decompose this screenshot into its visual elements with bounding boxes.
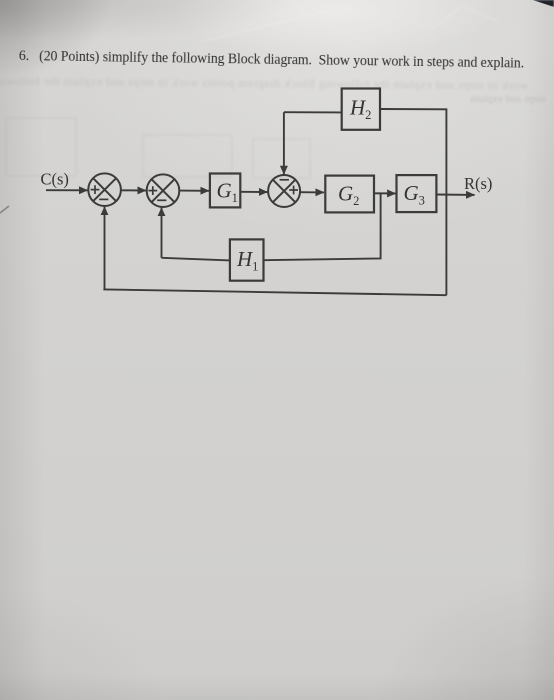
svg-text:H1: H1: [236, 247, 258, 274]
block H2: [342, 89, 380, 130]
dark table corner, top-right: [531, 0, 554, 7]
svg-text:G2: G2: [338, 182, 359, 209]
summing junction S3: [268, 175, 300, 207]
wire: G1 to summing junction S3: [240, 191, 267, 193]
label: S1 plus sign: [91, 185, 100, 194]
svg-text:G1: G1: [217, 179, 238, 206]
label: S2 plus sign: [148, 186, 157, 195]
wire: arrow down into S3 top: [283, 112, 285, 174]
svg-text:H2: H2: [349, 95, 371, 122]
wire: H1 output run to below S2: [162, 258, 230, 261]
label: S2 minus sign: [157, 199, 166, 201]
svg-text:G3: G3: [404, 181, 425, 208]
wire: S3 to block G2: [300, 191, 324, 193]
wire: arrow up into S1 bottom: [104, 207, 106, 290]
summing junction S1: [88, 173, 121, 206]
wire: H2 output run to above S3: [284, 111, 342, 113]
block G1: [210, 174, 240, 208]
wire: G3 to output arrow R(s): [436, 194, 474, 196]
wire: input arrow C(s) to summing junction S1: [46, 189, 88, 191]
wire: outer feedback bottom run: [103, 289, 446, 295]
wire: arrow up into S2 bottom: [161, 208, 163, 258]
label: S1 minus sign: [99, 198, 108, 200]
wire: output node up to H2 input (right vertical and top run): [380, 109, 446, 295]
block G3: [397, 175, 437, 212]
block H1: [230, 239, 264, 280]
wire: S1 to summing junction S2: [121, 189, 146, 191]
wire: G2 to block G3: [374, 192, 396, 194]
wire: S2 to block G1: [179, 190, 209, 192]
svg-text:C(s): C(s): [41, 170, 69, 189]
label: S3 minus sign: [280, 179, 289, 181]
label: S3 plus sign: [289, 186, 298, 195]
block G2: [325, 176, 374, 213]
summing junction S2: [147, 174, 180, 207]
wire: take-off after G2 down to H1 input: [264, 194, 381, 261]
svg-text:R(s): R(s): [464, 174, 492, 193]
